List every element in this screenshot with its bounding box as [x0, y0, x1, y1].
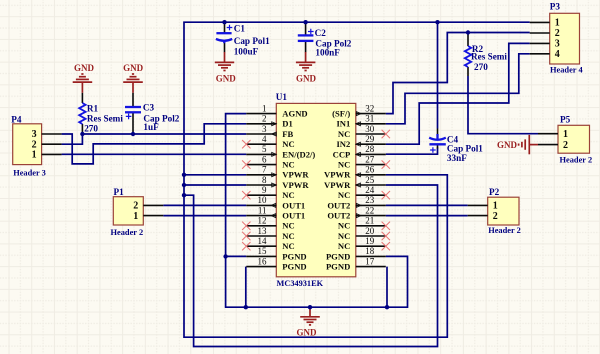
- svg-text:30: 30: [365, 124, 375, 134]
- svg-text:U1: U1: [276, 92, 288, 102]
- svg-text:22: 22: [365, 205, 374, 215]
- svg-text:5: 5: [262, 144, 267, 154]
- svg-text:PGND: PGND: [282, 251, 306, 261]
- svg-text:1: 1: [563, 129, 568, 140]
- svg-text:NC: NC: [338, 221, 350, 231]
- svg-text:18: 18: [365, 246, 375, 256]
- svg-text:GND: GND: [216, 73, 237, 83]
- svg-text:100nF: 100nF: [315, 48, 340, 58]
- svg-text:GND: GND: [123, 63, 144, 73]
- svg-text:Cap Pol1: Cap Pol1: [447, 143, 483, 153]
- svg-text:AGND: AGND: [282, 109, 307, 119]
- svg-text:GND: GND: [497, 140, 518, 150]
- svg-text:PGND: PGND: [326, 262, 350, 272]
- svg-text:19: 19: [365, 236, 375, 246]
- svg-text:6: 6: [262, 154, 267, 164]
- svg-text:270: 270: [474, 62, 488, 72]
- svg-text:11: 11: [258, 205, 267, 215]
- svg-text:NC: NC: [338, 241, 350, 251]
- svg-text:GND: GND: [74, 63, 95, 73]
- svg-text:PGND: PGND: [326, 251, 350, 261]
- svg-text:Header 2: Header 2: [111, 228, 144, 237]
- svg-text:100uF: 100uF: [234, 47, 259, 57]
- svg-text:33nF: 33nF: [447, 153, 467, 163]
- svg-text:IN1: IN1: [336, 119, 350, 129]
- svg-text:NC: NC: [338, 129, 350, 139]
- svg-text:P5: P5: [560, 114, 571, 124]
- svg-text:Header 2: Header 2: [488, 226, 521, 235]
- svg-text:26: 26: [365, 165, 375, 175]
- svg-text:21: 21: [365, 216, 374, 226]
- svg-text:13: 13: [258, 226, 268, 236]
- svg-text:VPWR: VPWR: [282, 180, 309, 190]
- svg-text:Res Semi: Res Semi: [87, 113, 123, 123]
- svg-text:NC: NC: [282, 190, 294, 200]
- svg-text:NC: NC: [338, 190, 350, 200]
- svg-text:20: 20: [365, 226, 375, 236]
- svg-text:29: 29: [365, 134, 375, 144]
- svg-text:C1: C1: [234, 23, 246, 33]
- svg-text:OUT1: OUT1: [282, 200, 305, 210]
- svg-text:17: 17: [365, 256, 375, 266]
- svg-text:8: 8: [262, 175, 267, 185]
- svg-text:NC: NC: [282, 231, 294, 241]
- svg-text:15: 15: [258, 246, 268, 256]
- svg-text:OUT1: OUT1: [282, 211, 305, 221]
- svg-text:P4: P4: [11, 115, 22, 125]
- svg-text:MC34931EK: MC34931EK: [277, 279, 324, 288]
- svg-text:IN2: IN2: [336, 139, 350, 149]
- svg-text:4: 4: [262, 134, 267, 144]
- svg-text:Cap Pol1: Cap Pol1: [234, 36, 270, 46]
- svg-text:C2: C2: [315, 28, 327, 38]
- svg-text:1uF: 1uF: [143, 122, 159, 132]
- svg-text:9: 9: [262, 185, 267, 195]
- svg-text:NC: NC: [282, 160, 294, 170]
- svg-text:NC: NC: [282, 221, 294, 231]
- svg-text:2: 2: [563, 140, 568, 151]
- svg-text:VPWR: VPWR: [324, 180, 351, 190]
- svg-text:VPWR: VPWR: [282, 170, 309, 180]
- svg-text:3: 3: [555, 39, 560, 50]
- svg-text:16: 16: [258, 256, 268, 266]
- svg-text:2: 2: [262, 114, 267, 124]
- svg-text:2: 2: [555, 28, 560, 39]
- svg-text:(SF/): (SF/): [332, 109, 350, 119]
- svg-text:1: 1: [262, 103, 267, 113]
- svg-text:Header 3: Header 3: [13, 169, 46, 178]
- svg-text:10: 10: [258, 195, 268, 205]
- svg-text:P2: P2: [489, 187, 500, 197]
- svg-text:C3: C3: [143, 103, 155, 113]
- svg-text:Header 4: Header 4: [550, 66, 583, 75]
- svg-text:VPWR: VPWR: [324, 170, 351, 180]
- svg-text:1: 1: [133, 211, 138, 222]
- svg-text:NC: NC: [338, 231, 350, 241]
- svg-text:OUT2: OUT2: [327, 200, 350, 210]
- svg-text:Header 2: Header 2: [560, 155, 593, 164]
- svg-text:Res Semi: Res Semi: [471, 52, 507, 62]
- svg-text:28: 28: [365, 144, 375, 154]
- svg-text:D1: D1: [282, 119, 293, 129]
- svg-text:2: 2: [493, 211, 498, 222]
- svg-text:R1: R1: [87, 103, 99, 113]
- svg-text:OUT2: OUT2: [327, 211, 350, 221]
- svg-text:7: 7: [262, 165, 267, 175]
- svg-text:31: 31: [365, 114, 374, 124]
- svg-text:270: 270: [84, 123, 98, 133]
- svg-text:27: 27: [365, 154, 375, 164]
- svg-text:1: 1: [32, 150, 37, 161]
- svg-text:NC: NC: [282, 241, 294, 251]
- svg-text:14: 14: [258, 236, 268, 246]
- svg-text:24: 24: [365, 185, 375, 195]
- svg-text:GND: GND: [296, 74, 317, 84]
- svg-text:1: 1: [555, 18, 560, 29]
- svg-text:12: 12: [258, 216, 267, 226]
- svg-text:32: 32: [365, 103, 374, 113]
- svg-text:P3: P3: [550, 2, 561, 12]
- svg-text:NC: NC: [282, 139, 294, 149]
- svg-text:CCP: CCP: [333, 149, 351, 159]
- svg-text:FB: FB: [282, 129, 293, 139]
- svg-text:NC: NC: [338, 160, 350, 170]
- svg-text:P1: P1: [114, 187, 125, 197]
- svg-text:GND: GND: [297, 328, 318, 338]
- svg-text:3: 3: [262, 124, 267, 134]
- svg-text:EN/(D2/): EN/(D2/): [282, 149, 315, 159]
- svg-text:PGND: PGND: [282, 262, 306, 272]
- svg-text:4: 4: [555, 49, 560, 60]
- svg-text:25: 25: [365, 175, 375, 185]
- svg-text:23: 23: [365, 195, 375, 205]
